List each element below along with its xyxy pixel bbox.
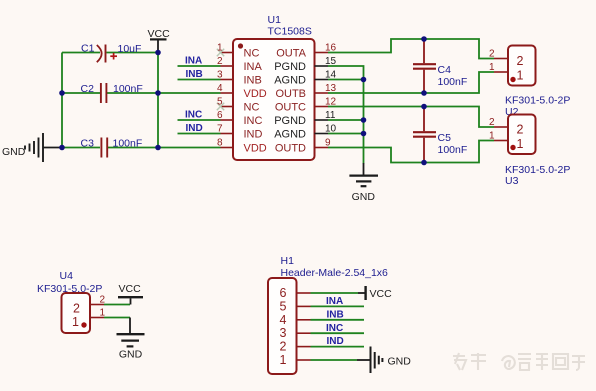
svg-text:100nF: 100nF xyxy=(438,144,468,156)
svg-text:100nF: 100nF xyxy=(113,83,143,95)
svg-text:VCC: VCC xyxy=(119,283,142,295)
wire pin16 to top net xyxy=(328,39,494,59)
wire H1 pin5 INA xyxy=(311,305,365,307)
svg-text:2: 2 xyxy=(489,49,495,60)
svg-text:GND: GND xyxy=(119,349,143,361)
wire C1 row right xyxy=(107,52,159,54)
wire C3 row left xyxy=(62,147,100,149)
wire left rail xyxy=(61,53,63,148)
capacitor C1 xyxy=(81,43,141,63)
wire C2 row left xyxy=(62,92,100,94)
svg-text:U1: U1 xyxy=(268,14,282,26)
U1 pin 3 INB xyxy=(217,70,262,87)
wire H1 pin4 INB xyxy=(311,319,365,321)
wire pin13 to U2 pin1 xyxy=(328,72,494,93)
svg-text:VDD: VDD xyxy=(244,88,267,100)
connector H1 Header-Male-2.54_1x6 xyxy=(268,255,388,374)
svg-text:1: 1 xyxy=(489,62,495,73)
svg-text:INA: INA xyxy=(244,61,263,73)
U1 pin 7 IND xyxy=(217,124,263,141)
U1 pin 9 OUTD xyxy=(275,138,331,155)
node junction pin11 rail xyxy=(361,117,367,123)
U1 pin 8 VDD xyxy=(217,138,267,155)
svg-text:1: 1 xyxy=(517,137,524,151)
svg-text:INB: INB xyxy=(327,309,344,320)
ground GND bottom left xyxy=(117,318,145,361)
node junction C3 left xyxy=(59,145,65,151)
svg-text:100nF: 100nF xyxy=(113,138,143,150)
svg-text:OUTA: OUTA xyxy=(276,48,306,60)
svg-text:C5: C5 xyxy=(438,132,452,144)
svg-text:INC: INC xyxy=(326,323,343,334)
node junction C3 right xyxy=(155,145,161,151)
svg-text:NC: NC xyxy=(244,102,260,114)
U1 pin 12 OUTC xyxy=(275,97,337,114)
wire U4 pin1 to GND xyxy=(104,317,130,319)
svg-text:H1: H1 xyxy=(281,255,295,267)
wire IND stub to pin7 xyxy=(178,133,221,135)
power flag VCC top xyxy=(148,28,171,53)
svg-text:PGND: PGND xyxy=(274,61,306,73)
power flag VCC right of H1 xyxy=(358,286,392,300)
wire pin9 to U3 pin1 xyxy=(328,141,494,163)
wire INC stub to pin6 xyxy=(178,119,221,121)
U1 pin 14 AGND xyxy=(274,70,336,87)
node junction C1-VCC xyxy=(155,50,161,56)
svg-text:INA: INA xyxy=(185,56,202,67)
node junction pin10 rail xyxy=(361,131,367,137)
ground GND under U1 xyxy=(349,163,378,203)
wire pin15 to gnd rail xyxy=(328,66,364,164)
ground GND left xyxy=(2,133,62,162)
svg-text:AGND: AGND xyxy=(274,75,306,87)
H1 pin 2 xyxy=(280,340,311,354)
svg-text:INB: INB xyxy=(244,75,262,87)
wire pin10 xyxy=(328,133,364,135)
svg-text:OUTB: OUTB xyxy=(275,88,306,100)
capacitor C2 xyxy=(81,83,143,103)
wire C1 row left xyxy=(62,52,100,54)
svg-text:Header-Male-2.54_1x6: Header-Male-2.54_1x6 xyxy=(281,267,389,279)
U1 pin 13 OUTB xyxy=(275,83,336,100)
svg-text:C4: C4 xyxy=(438,64,452,76)
node junction C4 top xyxy=(421,36,427,42)
svg-text:100nF: 100nF xyxy=(438,76,468,88)
svg-text:1: 1 xyxy=(517,69,524,83)
wire H1 pin6 to VCC xyxy=(311,292,359,294)
svg-text:IND: IND xyxy=(186,123,203,134)
wire pin11 xyxy=(328,119,364,121)
U1 pin 6 INC xyxy=(217,110,263,127)
svg-text:C2: C2 xyxy=(81,83,95,95)
node junction C4 bottom xyxy=(421,90,427,96)
U1 pin 4 VDD xyxy=(217,83,267,100)
H1 pin 4 xyxy=(280,313,311,327)
connector U4 KF301-5.0-2P xyxy=(37,270,106,333)
svg-text:8: 8 xyxy=(217,138,223,149)
wire H1 pin3 INC xyxy=(311,332,365,334)
svg-text:OUTC: OUTC xyxy=(275,102,306,114)
svg-text:GND: GND xyxy=(388,356,412,368)
wire H1 pin2 IND xyxy=(311,346,365,348)
svg-text:U4: U4 xyxy=(60,270,74,282)
svg-text:VDD: VDD xyxy=(244,143,267,155)
ground GND right of H1 xyxy=(357,347,411,374)
capacitor C4 xyxy=(413,39,467,93)
node junction C2 left xyxy=(59,90,65,96)
watermark 知乎 @编程圈子 xyxy=(453,353,585,370)
connector U2 KF301-5.0-2P xyxy=(489,46,570,119)
H1 pin 6 xyxy=(280,286,311,300)
svg-text:IND: IND xyxy=(244,129,263,141)
wire C2 row to pin4 xyxy=(107,92,221,94)
U1 pin 15 PGND xyxy=(274,56,336,73)
svg-text:GND: GND xyxy=(352,191,376,203)
U1 pin 11 PGND xyxy=(274,110,336,127)
svg-text:NC: NC xyxy=(244,48,260,60)
wire H1 pin1 to GND xyxy=(311,359,358,361)
node junction pin14 rail xyxy=(361,77,367,83)
svg-text:GND: GND xyxy=(2,146,26,158)
wire C3 row to pin8 xyxy=(108,147,221,149)
U1 pin 16 OUTA xyxy=(276,43,336,60)
connector U3 KF301-5.0-2P xyxy=(489,115,570,188)
svg-text:2: 2 xyxy=(73,302,80,316)
svg-text:1: 1 xyxy=(280,353,287,367)
svg-text:2: 2 xyxy=(217,56,223,67)
svg-text:7: 7 xyxy=(217,124,223,135)
svg-text:INB: INB xyxy=(186,69,203,80)
svg-text:3: 3 xyxy=(280,326,287,340)
svg-text:PGND: PGND xyxy=(274,115,306,127)
svg-text:INA: INA xyxy=(326,296,343,307)
svg-text:5: 5 xyxy=(217,97,223,108)
U1 pin 10 AGND xyxy=(274,124,336,141)
wire pin12 to U3 pin2 xyxy=(328,107,494,128)
capacitor C3 xyxy=(81,138,143,158)
svg-text:IND: IND xyxy=(327,336,344,347)
svg-text:KF301-5.0-2P: KF301-5.0-2P xyxy=(505,164,570,176)
svg-text:3: 3 xyxy=(217,70,223,81)
svg-text:INC: INC xyxy=(244,115,263,127)
wire right rail xyxy=(157,53,159,148)
wire pin14 xyxy=(328,79,364,81)
U1 pin 5 NC xyxy=(217,97,260,114)
svg-text:KF301-5.0-2P: KF301-5.0-2P xyxy=(505,95,570,107)
svg-text:1: 1 xyxy=(489,131,495,142)
power flag VCC bottom left xyxy=(118,283,143,305)
svg-text:VCC: VCC xyxy=(370,288,393,300)
wire INA stub to pin2 xyxy=(178,65,221,67)
svg-text:2: 2 xyxy=(280,340,287,354)
capacitor C5 xyxy=(413,107,467,163)
svg-text:2: 2 xyxy=(489,117,495,128)
svg-text:U3: U3 xyxy=(505,175,519,187)
svg-text:2: 2 xyxy=(517,54,524,68)
node junction C5 bottom xyxy=(421,160,427,166)
node junction C5 top xyxy=(421,104,427,110)
svg-text:C1: C1 xyxy=(81,43,95,55)
wire U4 pin2 to VCC xyxy=(104,304,130,306)
op-amp U1 body TC1508S xyxy=(233,14,315,160)
svg-text:10uF: 10uF xyxy=(118,43,142,55)
svg-text:6: 6 xyxy=(280,286,287,300)
wire INB stub to pin3 xyxy=(178,79,221,81)
svg-text:AGND: AGND xyxy=(274,129,306,141)
svg-text:1: 1 xyxy=(72,315,79,329)
U1 pin 2 INA xyxy=(217,56,263,73)
svg-text:VCC: VCC xyxy=(148,28,171,40)
H1 pin 1 xyxy=(280,353,311,367)
svg-text:5: 5 xyxy=(280,299,287,313)
svg-text:4: 4 xyxy=(280,313,287,327)
svg-text:6: 6 xyxy=(217,110,223,121)
H1 pin 5 xyxy=(280,299,311,313)
svg-text:2: 2 xyxy=(517,123,524,137)
svg-text:1: 1 xyxy=(217,43,223,54)
svg-text:INC: INC xyxy=(185,110,202,121)
svg-text:OUTD: OUTD xyxy=(275,143,306,155)
U1 pin 1 NC xyxy=(217,43,260,60)
svg-text:TC1508S: TC1508S xyxy=(268,26,312,38)
svg-text:C3: C3 xyxy=(81,138,95,150)
svg-text:4: 4 xyxy=(217,83,223,94)
H1 pin 3 xyxy=(280,326,311,340)
node junction C2 right xyxy=(155,90,161,96)
